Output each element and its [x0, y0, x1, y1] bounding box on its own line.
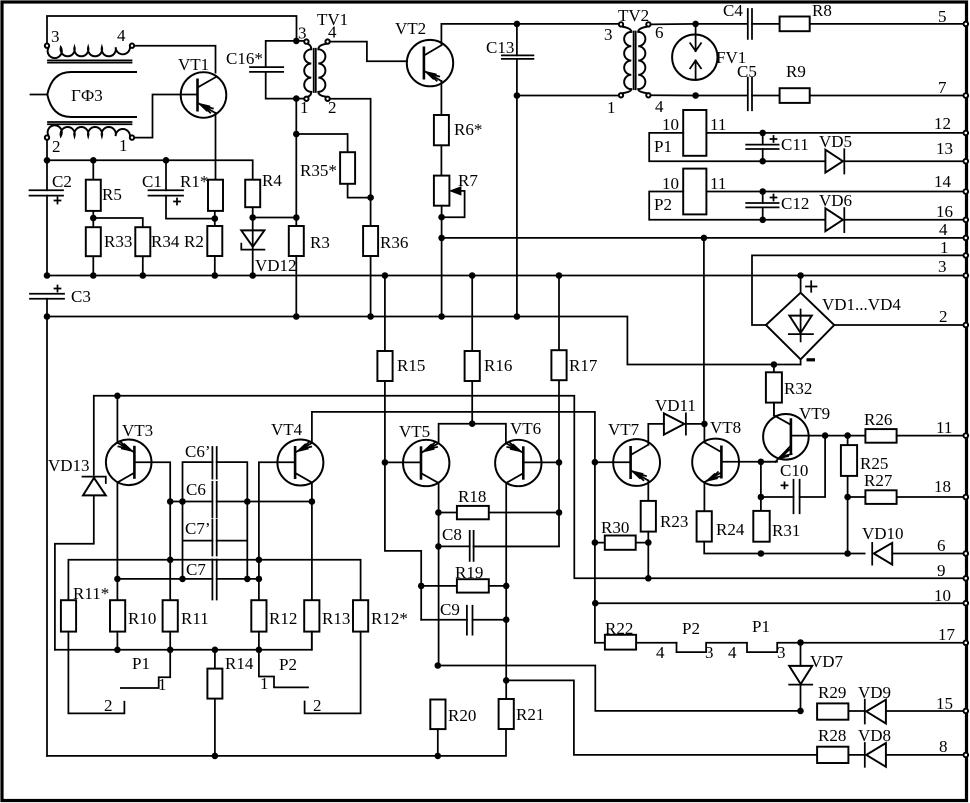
svg-text:VD10: VD10	[862, 524, 904, 543]
diode VD13 (zener)	[55, 477, 106, 650]
node R7 wiper	[438, 214, 445, 221]
node R31 bottom	[758, 550, 765, 557]
wire R4 node to R3 line	[253, 217, 297, 219]
node bus3 left	[44, 313, 51, 320]
inductor L1 terminal 4	[130, 44, 134, 48]
node TV1 pin3	[293, 38, 300, 45]
label - (bridge)	[807, 358, 816, 361]
node R32 top	[771, 361, 778, 368]
svg-text:R13: R13	[322, 609, 350, 628]
svg-text:11: 11	[710, 115, 726, 134]
terminal 7	[964, 93, 969, 98]
svg-text:5: 5	[938, 7, 947, 26]
svg-text:R19: R19	[455, 563, 483, 582]
svg-text:2: 2	[313, 696, 322, 715]
wire left column down	[46, 299, 48, 756]
terminal 9	[964, 576, 969, 581]
node R35/R36	[367, 194, 374, 201]
node R30 left	[592, 539, 599, 546]
svg-text:1: 1	[607, 98, 616, 117]
svg-text:11: 11	[936, 418, 952, 437]
transformer TV1	[304, 39, 330, 101]
svg-text:R18: R18	[458, 487, 486, 506]
svg-text:10: 10	[934, 586, 951, 605]
svg-text:R5: R5	[102, 185, 122, 204]
node R25/R27	[844, 494, 851, 501]
node C13 at TV2 line	[514, 92, 521, 99]
diode VD9	[865, 700, 964, 724]
node VT3 emitter on E1	[114, 393, 121, 400]
node bus2 left	[44, 272, 51, 279]
node line4 tap	[438, 235, 445, 242]
relay coil P1	[649, 110, 964, 161]
wire VT9 collector to R32	[773, 403, 775, 416]
svg-text:C8: C8	[442, 525, 462, 544]
resistor R27	[848, 490, 964, 504]
resistor R30	[595, 536, 648, 550]
capacitor C7' plates	[212, 520, 216, 556]
node R23/R30	[645, 539, 652, 546]
wire VT7 collector up to VD11	[648, 424, 664, 445]
node C11 top	[759, 130, 766, 137]
capacitor C8	[438, 531, 559, 561]
svg-text:R32: R32	[784, 379, 812, 398]
node C6 right	[244, 498, 251, 505]
capacitor C16	[250, 41, 296, 99]
svg-text:1: 1	[119, 136, 128, 155]
svg-text:VT1: VT1	[178, 55, 209, 74]
node C10 left	[758, 494, 765, 501]
resistor R19	[421, 579, 506, 592]
node R1/R2/C1	[212, 215, 219, 222]
resistor R21	[499, 699, 514, 729]
node C11 bottom	[759, 158, 766, 165]
wire bottom rail	[47, 729, 506, 756]
core lines top	[48, 60, 132, 62]
resistor R6*	[434, 115, 449, 145]
resistor R34	[135, 227, 150, 275]
node R25/line6	[844, 550, 851, 557]
svg-text:C7’: C7’	[185, 519, 211, 538]
svg-text:4: 4	[656, 643, 665, 662]
svg-text:P1: P1	[752, 617, 770, 636]
node C8 left	[435, 543, 442, 550]
capacitor C5	[748, 78, 752, 111]
wire VT5 collector down	[438, 483, 440, 666]
svg-text:C16*: C16*	[226, 49, 263, 68]
wire TV1 term4 to VT2 base	[330, 42, 407, 62]
resistor R20	[430, 700, 445, 756]
svg-text:R10: R10	[128, 609, 156, 628]
svg-text:C10: C10	[780, 461, 808, 480]
terminal 1	[964, 253, 969, 258]
node FV1 top	[692, 21, 699, 28]
svg-text:C1: C1	[142, 172, 162, 191]
resistor R11	[163, 600, 178, 650]
svg-text:4: 4	[328, 23, 337, 42]
wire L2 term2 to bus1	[46, 140, 48, 161]
wire VT8 base right	[721, 461, 777, 463]
svg-text:16: 16	[936, 202, 953, 221]
wire VT4 base left and down	[259, 462, 295, 600]
svg-text:R6*: R6*	[454, 120, 482, 139]
wire into TV1 term3	[296, 40, 304, 42]
resistor R18	[438, 506, 559, 519]
svg-text:R9: R9	[786, 62, 806, 81]
svg-text:R20: R20	[448, 706, 476, 725]
capacitor C4	[748, 9, 752, 39]
node R18 left	[435, 509, 442, 516]
svg-text:VD6: VD6	[819, 191, 852, 210]
node line4 tap right	[701, 235, 708, 242]
capacitor C1	[149, 160, 215, 218]
wire line 559 (R11*-R12*)	[68, 560, 360, 600]
capacitor C7 line	[117, 578, 259, 580]
svg-text:R34: R34	[151, 232, 180, 251]
resistor R1	[208, 180, 223, 211]
svg-text:15: 15	[936, 694, 953, 713]
capacitor C6 plates	[212, 482, 216, 517]
resistor R11*	[61, 600, 76, 631]
svg-text:VD1...VD4: VD1...VD4	[822, 295, 901, 314]
wire line 1	[752, 255, 964, 325]
relay coil P2	[649, 169, 964, 220]
svg-text:R16: R16	[484, 356, 512, 375]
svg-text:VT4: VT4	[271, 420, 303, 439]
svg-text:C2: C2	[52, 172, 72, 191]
wire R5 node to R34	[93, 218, 143, 227]
svg-text:VT6: VT6	[510, 419, 541, 438]
node R19 right	[503, 583, 510, 590]
node C12 top	[759, 188, 766, 195]
svg-text:R1*: R1*	[180, 172, 208, 191]
node rail R11	[167, 647, 174, 654]
svg-text:P2: P2	[654, 195, 672, 214]
node bus1-C1	[163, 157, 170, 164]
svg-text:7: 7	[938, 78, 947, 97]
wire TV2 term6 right	[651, 23, 748, 26]
terminal 16	[964, 218, 969, 223]
node VT7 base	[592, 459, 599, 466]
transistor VT4	[277, 440, 323, 486]
node VT4 collector / C6 line	[309, 498, 316, 505]
wire bus1	[47, 160, 253, 179]
diode VD12 (zener)	[241, 218, 264, 276]
core lines bottom	[48, 122, 132, 124]
svg-text:3: 3	[705, 643, 714, 662]
wire bus2 (to border terminal 3)	[47, 275, 964, 277]
node rail R14	[212, 647, 219, 654]
terminal 3	[964, 273, 969, 278]
wire VT3 base right and down	[134, 462, 170, 600]
resistor R15	[377, 276, 421, 620]
capacitor C6 line	[170, 501, 312, 503]
svg-text:R8: R8	[812, 1, 832, 20]
svg-text:VD8: VD8	[858, 726, 891, 745]
svg-text:6: 6	[655, 23, 664, 42]
wire R6 to R7	[440, 145, 442, 175]
svg-text:P1: P1	[132, 654, 150, 673]
resistor R8	[752, 17, 964, 32]
resistor R33	[86, 218, 101, 276]
node R35 tap	[293, 131, 300, 138]
terminal 13	[964, 159, 969, 164]
wire line B to terminal 8	[506, 680, 817, 755]
svg-text:VD13: VD13	[48, 456, 90, 475]
node R36-bus3	[367, 313, 374, 320]
terminal 10	[964, 601, 969, 606]
node VD11 / VT8 collector	[701, 421, 708, 428]
inductor L2 terminal 2	[45, 135, 49, 139]
svg-text:VT5: VT5	[399, 422, 430, 441]
resistor R10	[110, 600, 125, 650]
wire line 6	[761, 553, 865, 555]
wire bus3	[47, 317, 801, 365]
resistor R16	[465, 276, 480, 424]
node TV1 pin1	[293, 95, 300, 102]
node VT4 base / line559	[256, 557, 263, 564]
node C12 bottom	[759, 217, 766, 224]
wire line 10	[595, 602, 964, 604]
svg-text:2: 2	[52, 137, 61, 156]
svg-text:R22: R22	[605, 619, 633, 638]
svg-text:R33: R33	[104, 232, 132, 251]
svg-text:C3: C3	[71, 287, 91, 306]
svg-text:14: 14	[934, 172, 952, 191]
svg-text:C6’: C6’	[185, 442, 211, 461]
node R7-bus3	[438, 313, 445, 320]
label + (bridge)	[806, 281, 817, 292]
svg-text:6: 6	[937, 536, 946, 555]
terminal 5	[964, 22, 969, 27]
svg-text:10: 10	[662, 115, 679, 134]
svg-text:P1: P1	[654, 137, 672, 156]
contact P2-2 stub	[305, 632, 361, 714]
node C13-bus3	[514, 313, 521, 320]
svg-text:4: 4	[655, 97, 664, 116]
node bottom rail R14	[212, 753, 219, 760]
terminal 11	[964, 433, 969, 438]
capacitor C10	[761, 436, 825, 514]
wire VT6 base	[523, 461, 559, 463]
capacitor C3	[30, 286, 64, 299]
svg-text:VD7: VD7	[810, 652, 844, 671]
svg-text:R27: R27	[864, 471, 893, 490]
node R4/VD12	[249, 214, 256, 221]
node C7 left	[179, 576, 186, 583]
node bus2 R34	[140, 272, 147, 279]
svg-text:R3: R3	[310, 233, 330, 252]
wire line A to terminal 15	[438, 666, 801, 711]
node bus1-L2	[44, 157, 51, 164]
svg-text:3: 3	[777, 643, 786, 662]
svg-text:1: 1	[300, 98, 309, 117]
svg-text:1: 1	[158, 675, 167, 694]
transistor VT9	[763, 414, 809, 462]
diode VD6	[825, 208, 964, 232]
wire line 4	[442, 237, 964, 239]
diode VD7	[789, 643, 812, 711]
node rail R12	[256, 647, 263, 654]
node R17-bus2	[556, 272, 563, 279]
wire rail 650	[55, 632, 312, 650]
svg-text:1: 1	[940, 238, 949, 257]
svg-text:17: 17	[938, 625, 956, 644]
resistor R5	[86, 160, 101, 218]
svg-text:2: 2	[104, 696, 113, 715]
terminal 12	[964, 131, 969, 136]
node C10/VT9 base	[822, 432, 829, 439]
resistor R24	[697, 511, 761, 553]
capacitor C2	[30, 160, 64, 275]
svg-text:R21: R21	[516, 705, 544, 724]
svg-text:9: 9	[937, 561, 946, 580]
node R19 left	[418, 583, 425, 590]
contact chain P2/P1 (4-3 4-3)	[677, 643, 965, 652]
svg-text:R35*: R35*	[300, 161, 337, 180]
resistor R17	[474, 276, 567, 547]
wire L1 term4 to VT1 collector	[134, 46, 215, 73]
capsule lead	[31, 94, 48, 96]
svg-text:13: 13	[936, 139, 953, 158]
diode VD5	[825, 149, 964, 173]
diode VD11	[664, 413, 705, 434]
wire TV2 bottom line	[517, 95, 619, 97]
inductor L1 (top winding of ГФ3)	[48, 47, 130, 58]
svg-text:R12: R12	[269, 609, 297, 628]
svg-text:C9: C9	[440, 600, 460, 619]
terminal 8	[964, 753, 969, 758]
wire TV2 term4 right	[651, 94, 748, 96]
svg-text:3: 3	[298, 24, 307, 43]
transistor VT6	[495, 440, 541, 486]
svg-text:11: 11	[710, 174, 726, 193]
svg-text:C7: C7	[186, 560, 206, 579]
wire L2 term1 to VT1 base	[134, 95, 197, 138]
terminal 14	[964, 189, 969, 194]
svg-text:C5: C5	[737, 62, 757, 81]
wire R7 bottom column	[441, 206, 443, 317]
node C7 right	[244, 576, 251, 583]
resistor R25	[841, 436, 857, 554]
svg-text:R28: R28	[818, 726, 846, 745]
contact P1-1	[121, 650, 170, 688]
svg-text:VT8: VT8	[710, 418, 741, 437]
resistor R12*	[353, 600, 368, 631]
svg-text:VT2: VT2	[395, 19, 426, 38]
wire TV1 pin1 column down to R3	[295, 99, 297, 226]
node C9 right	[503, 616, 510, 623]
resistor R14	[207, 650, 222, 756]
resistor R23	[641, 501, 656, 578]
svg-text:VD5: VD5	[819, 132, 852, 151]
wire VT5-VT6 emitter coupling	[439, 424, 506, 444]
resistor R12	[251, 600, 266, 650]
svg-text:P2: P2	[682, 619, 700, 638]
node bridge-bus2	[797, 272, 804, 279]
svg-text:ГФ3: ГФ3	[71, 86, 103, 105]
svg-text:10: 10	[662, 174, 679, 193]
wire line4 column down	[703, 238, 705, 424]
svg-text:C13: C13	[486, 38, 514, 57]
terminal 18	[964, 495, 969, 500]
svg-text:R15: R15	[397, 356, 425, 375]
node VT3 base / C6 line	[167, 498, 174, 505]
terminal 2	[964, 323, 969, 328]
svg-text:R30: R30	[601, 518, 629, 537]
transformer TV2	[619, 22, 651, 97]
terminal 6	[964, 551, 969, 556]
svg-text:R31: R31	[772, 521, 800, 540]
svg-text:1: 1	[260, 674, 269, 693]
capacitor C6' loop	[183, 462, 248, 501]
svg-text:R11: R11	[181, 609, 209, 628]
svg-text:TV2: TV2	[618, 6, 649, 25]
node line10 tap	[592, 600, 599, 607]
bridge VD1...VD4	[766, 276, 834, 365]
node VD7 bottom	[797, 708, 804, 715]
node R20 top	[435, 662, 442, 669]
node R23/line9	[645, 575, 652, 582]
svg-text:R7: R7	[458, 171, 478, 190]
node VT3 collector / C7 line	[114, 576, 121, 583]
inductor L1 terminal 3	[45, 44, 49, 48]
capacitor C9	[421, 606, 506, 635]
resistor R32	[766, 365, 782, 415]
resistor R2	[207, 211, 222, 276]
terminal 4	[964, 236, 969, 241]
svg-text:4: 4	[728, 643, 737, 662]
svg-text:VT7: VT7	[608, 420, 640, 439]
svg-text:VD12: VD12	[255, 256, 297, 275]
wire VT7 base	[595, 461, 631, 463]
svg-text:VT3: VT3	[122, 421, 153, 440]
transistor VT7	[613, 439, 660, 486]
svg-text:R36: R36	[380, 233, 408, 252]
transistor VT8	[692, 439, 739, 486]
resistor R7 (trimmer)	[434, 176, 465, 218]
node FV1 bottom	[692, 92, 699, 99]
wire VT2 emitter to R6	[440, 81, 442, 115]
resistor R36	[363, 226, 378, 317]
wire VT2 collector to TV2	[441, 24, 618, 45]
node R3 line / R4	[293, 214, 300, 221]
contact P1-2 stub	[68, 632, 124, 714]
node bus1-R5	[90, 157, 97, 164]
node VD12-bus2	[249, 272, 256, 279]
capsule ГФ3 body	[47, 72, 137, 117]
svg-text:3: 3	[51, 27, 60, 46]
contact P2-1	[259, 650, 308, 688]
svg-text:VD11: VD11	[655, 396, 696, 415]
node R3-bus3	[293, 313, 300, 320]
svg-text:3: 3	[938, 257, 947, 276]
svg-text:C6: C6	[186, 480, 206, 499]
resistor R4	[245, 180, 260, 218]
capacitor C6' plates	[212, 447, 216, 479]
svg-text:2: 2	[939, 307, 948, 326]
svg-text:VD9: VD9	[858, 683, 891, 702]
node R18 right	[556, 509, 563, 516]
wire TV1 term2 to R36	[330, 99, 371, 226]
node VT6 base	[556, 459, 563, 466]
svg-text:R12*: R12*	[371, 609, 408, 628]
svg-text:C11: C11	[781, 135, 809, 154]
node VT4 base / C7 line	[256, 576, 263, 583]
node C13 top	[514, 21, 521, 28]
node R5/R33/R34	[90, 215, 97, 222]
transistor VT2	[407, 40, 453, 86]
